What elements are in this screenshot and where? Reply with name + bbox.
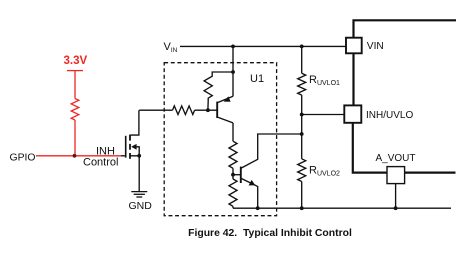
svg-text:VIN: VIN bbox=[367, 41, 384, 52]
svg-text:GND: GND bbox=[129, 200, 153, 212]
svg-text:Control: Control bbox=[83, 157, 118, 169]
svg-text:U1: U1 bbox=[250, 73, 264, 85]
svg-text:INH: INH bbox=[96, 145, 115, 157]
svg-text:A_VOUT: A_VOUT bbox=[376, 153, 416, 164]
svg-text:3.3V: 3.3V bbox=[64, 55, 88, 67]
svg-text:GPIO: GPIO bbox=[10, 153, 36, 164]
svg-text:Figure 42. Typical Inhibit Co: Figure 42. Typical Inhibit Control bbox=[188, 228, 352, 239]
svg-text:INH/UVLO: INH/UVLO bbox=[366, 110, 413, 121]
